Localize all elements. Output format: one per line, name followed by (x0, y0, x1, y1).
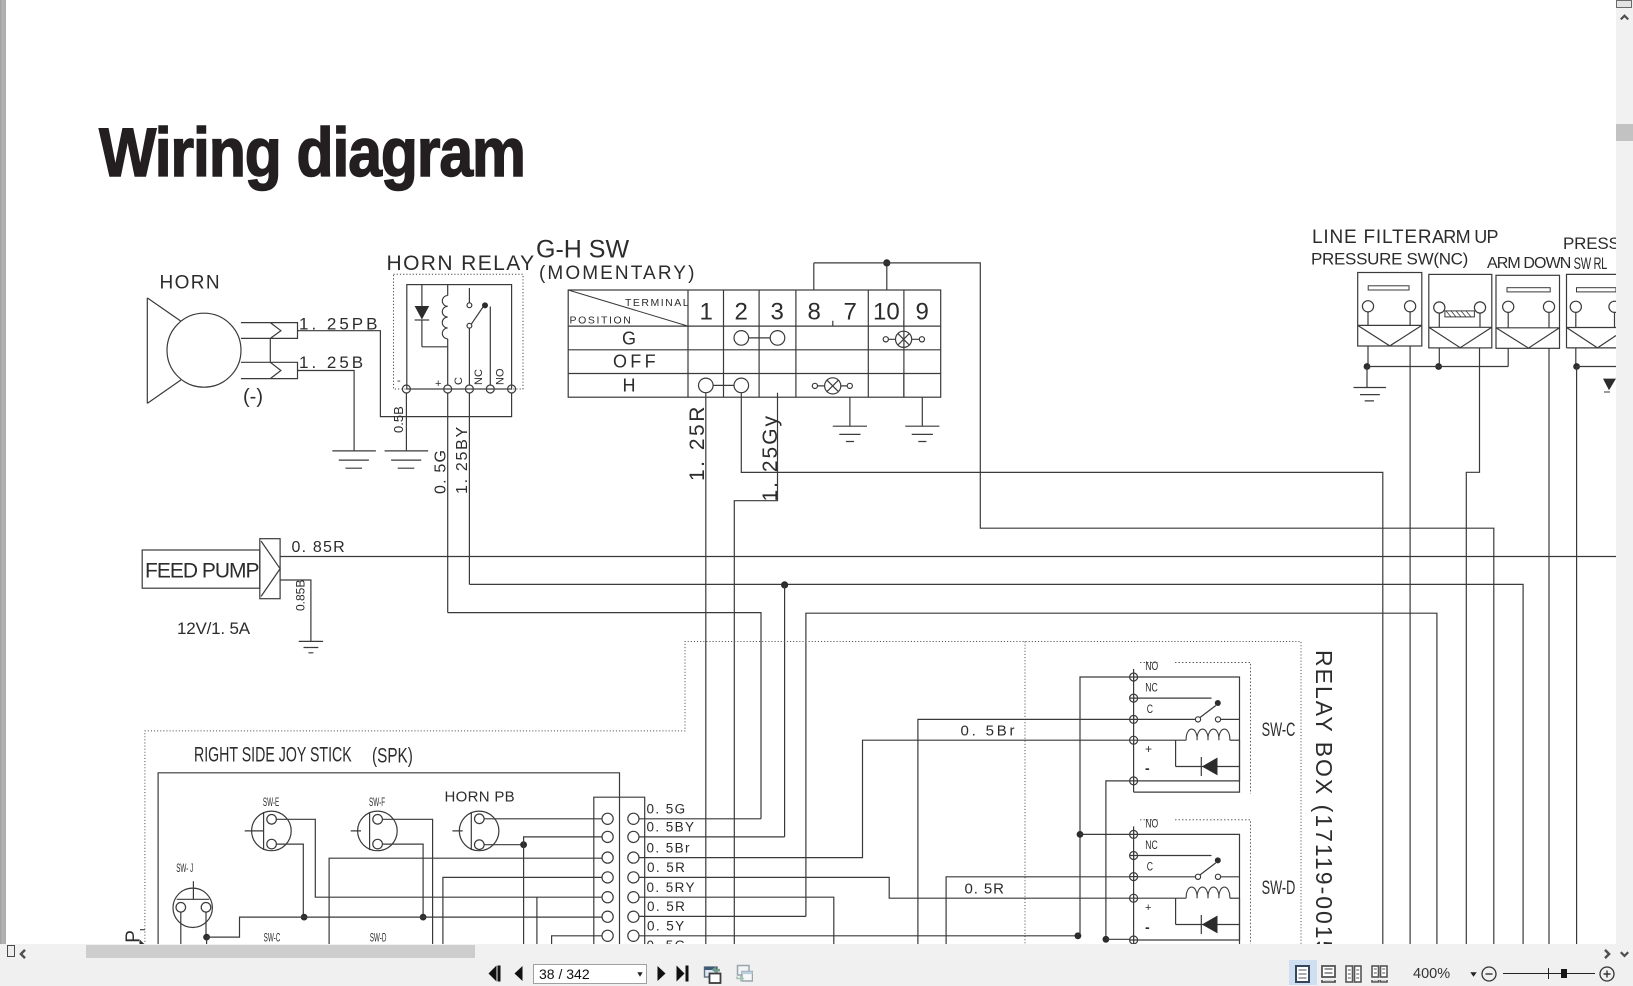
wire arm up right leg jog down (1466, 348, 1479, 945)
svg-text:SW-C: SW-C (264, 932, 281, 944)
svg-text:SW-E: SW-E (263, 796, 279, 808)
pin NO (508, 385, 516, 393)
nav: prev page (514, 966, 523, 981)
label 0.5Br (961, 723, 1018, 740)
svg-text:POSITION: POSITION (570, 315, 633, 327)
svg-text:-: - (1145, 760, 1150, 776)
ground G4 (905, 426, 939, 441)
sw rl label (1574, 255, 1608, 274)
label 0.5G rotated (433, 449, 450, 494)
svg-text:8: 8 (808, 299, 821, 326)
svg-text:NO: NO (1145, 818, 1158, 830)
wire SW-F top down (382, 819, 432, 945)
label 0.5B rotated (391, 406, 406, 433)
label 0.85R (292, 539, 346, 556)
relay pin labels (397, 368, 507, 390)
svg-text:+: + (1145, 742, 1152, 756)
svg-text:SW-F: SW-F (369, 796, 385, 808)
node H (520, 841, 527, 848)
wire 0.85B to ground (280, 580, 311, 641)
SW-D pin minus (1130, 936, 1138, 944)
G-H SW label (536, 236, 629, 264)
pin NC (486, 385, 494, 393)
wire line filter right leg down (1409, 346, 1411, 945)
zoom caret (1470, 972, 1477, 977)
ground G5 (299, 641, 323, 652)
wire SW-D minus left (1106, 938, 1130, 940)
harness dashed boundary (145, 642, 1301, 946)
layout: facing (1345, 965, 1362, 983)
wire 1.25PB horn to relay NO (298, 331, 512, 417)
wire above table col8 (813, 263, 815, 290)
svg-text:RELAY BOX (17119-0015: RELAY BOX (17119-0015 (1311, 650, 1337, 945)
relay box dashed divider (1024, 642, 1026, 946)
wire 0.5Br SW-C C left (918, 719, 1130, 945)
horn H1 label (160, 273, 222, 294)
SW-C pin minus (1130, 777, 1138, 785)
layout: book view (1371, 965, 1388, 983)
H row bridge 1-2 (699, 378, 749, 393)
wire row3 right run up to SW-C coil (639, 740, 1130, 857)
svg-text:1. 25B: 1. 25B (299, 353, 366, 372)
wire arm down left leg (1507, 348, 1509, 366)
switch SW-E (245, 811, 291, 851)
node E (1573, 363, 1580, 370)
node D (1435, 363, 1442, 370)
vertical scrollbar (1616, 0, 1633, 959)
v-scrollbar thumb (1616, 124, 1633, 141)
horn H1 symbol (147, 298, 241, 404)
svg-text:10: 10 (873, 299, 900, 326)
diode D1 (415, 285, 430, 347)
relay SW-C coil (1138, 729, 1240, 781)
svg-text:+: + (1145, 902, 1151, 914)
pin C (465, 385, 473, 393)
node I (203, 934, 210, 941)
ground G3 (833, 426, 867, 441)
label (-) (243, 386, 263, 408)
wire SW-E bottom to common (276, 844, 303, 917)
svg-text:NC: NC (473, 369, 485, 385)
v-scrollbar top split box (1616, 0, 1632, 8)
wire col9 lamp to ground (921, 397, 923, 426)
arm down label (1487, 255, 1571, 272)
wire horn pb top to row1 (484, 818, 601, 820)
wire common riser (207, 917, 602, 937)
horn relay inner box (407, 285, 512, 389)
relay SW-D coil (1138, 887, 1240, 940)
SW-D pin C (1130, 873, 1138, 881)
wire sw rl bus right (1577, 366, 1616, 368)
pin plus (444, 385, 452, 393)
horn terminal bottom (241, 362, 299, 378)
grip label rotated (cut) (123, 927, 144, 951)
wire row6 to mid bus riser (639, 915, 806, 917)
node F (301, 914, 308, 921)
svg-text:SW-D: SW-D (370, 932, 387, 944)
SW-C pin plus (1130, 736, 1138, 744)
svg-text:ARM UP: ARM UP (1432, 227, 1498, 247)
nav forward (disabled) (734, 963, 753, 984)
node B on 1.25BY run (781, 581, 788, 588)
svg-text:NC: NC (1145, 840, 1157, 852)
h-scrollbar left arrow (18, 949, 28, 959)
row labels (613, 329, 659, 396)
page combo box (533, 964, 647, 984)
switch SW-D label (below cut) (370, 932, 387, 944)
horn relay K1 label (387, 252, 536, 275)
coil bottom connect (422, 347, 448, 385)
relay SW-C dotted enclosure (1140, 662, 1251, 793)
svg-text:ARM DOWN: ARM DOWN (1487, 255, 1571, 272)
wire top bus to right drop (814, 263, 1494, 945)
wire SW-D NO left (1080, 833, 1130, 835)
switch SW-J label (176, 862, 193, 874)
wire SW-D branch to row5b (536, 897, 538, 945)
G row bridge 2-3 (734, 331, 785, 346)
wire SW-J right leg down (206, 937, 208, 945)
press label (1563, 234, 1620, 253)
nav back (enabled) (703, 963, 722, 984)
svg-text:0. 5G: 0. 5G (647, 802, 687, 817)
switch SW-J (173, 881, 212, 927)
zoom in (1599, 966, 1615, 982)
wire row1 to 0.5G riser (639, 818, 761, 820)
horn relay dashed box (394, 274, 524, 389)
wire SW-J right to common (205, 912, 207, 937)
h-scrollbar thumb (86, 945, 475, 958)
label 1.25BY rotated (454, 425, 471, 494)
wire SW-C branch2 to row4 (443, 877, 602, 945)
horn pushbutton label (445, 789, 515, 806)
v-scrollbar up arrow (1620, 13, 1629, 22)
node K (1075, 932, 1082, 939)
wire sw rl left leg (1575, 348, 1577, 367)
wire SW-C NO to SW-D NO riser (1080, 677, 1130, 936)
G row lamp 10-9 (883, 331, 924, 347)
label 0.5R (965, 881, 1005, 898)
arm up pressure switch S3 (1429, 274, 1492, 348)
label 1.25R rotated (686, 404, 709, 481)
switch SW-F (351, 811, 398, 851)
wire 1.25B label (299, 353, 366, 372)
wire row5 right short drop (639, 897, 834, 945)
junction bus to grounds (1367, 366, 1508, 368)
svg-text:HORN RELAY: HORN RELAY (387, 252, 536, 275)
svg-text:0. 5BY: 0. 5BY (647, 820, 696, 835)
ground G1 (332, 451, 376, 468)
relay terminal circles (402, 385, 515, 393)
svg-text:0. 5RY: 0. 5RY (647, 880, 696, 895)
svg-text:1. 25Gy: 1. 25Gy (759, 414, 782, 502)
svg-text:SW RL: SW RL (1574, 255, 1608, 274)
svg-text:0.5B: 0.5B (391, 406, 406, 433)
page edge arrow (140, 930, 145, 945)
svg-text:G-H SW: G-H SW (536, 236, 629, 264)
zoom level text (1413, 966, 1450, 982)
svg-text:0.85B: 0.85B (294, 580, 308, 611)
svg-text:TERMINAL: TERMINAL (625, 297, 690, 309)
connector J1 pins left column (602, 813, 613, 941)
wire SW-C minus down (1106, 781, 1130, 939)
svg-text:SW- J: SW- J (176, 862, 193, 874)
svg-text:C: C (1147, 861, 1153, 873)
arm up label (1432, 227, 1498, 247)
relay SW-C pin labels (1145, 661, 1158, 776)
wire 1.25BY run right (469, 584, 1523, 945)
switch SW-F label (369, 796, 385, 808)
nav: first page (488, 965, 501, 982)
spk label (372, 743, 413, 767)
wire sw rl left leg down (1576, 367, 1578, 946)
ground G2 (385, 451, 429, 468)
wire 0.5B relay minus to ground (405, 393, 407, 451)
relay SW-D pins (1130, 830, 1138, 944)
zoom slider track (1503, 973, 1595, 975)
wire row2 to node B drop (639, 836, 785, 838)
svg-text:(MOMENTARY): (MOMENTARY) (539, 263, 697, 284)
nav: last page (676, 965, 689, 982)
wire col7 lamp to ground (849, 397, 851, 426)
pressure sw label (1311, 250, 1468, 269)
svg-text:SW-C: SW-C (1262, 720, 1296, 741)
wire 1.25R col1 down (705, 393, 707, 945)
joystick solid box (158, 773, 619, 945)
svg-text:1: 1 (700, 299, 713, 326)
connector J1 shells (594, 797, 645, 945)
svg-text:0. 5Br: 0. 5Br (961, 723, 1018, 740)
zoom slider tick (1548, 968, 1550, 979)
svg-text:G: G (622, 329, 636, 349)
svg-text:7: 7 (844, 299, 857, 326)
svg-text:1. 25R: 1. 25R (686, 404, 709, 481)
wire 1.25Gy col3 down jog (734, 393, 777, 945)
svg-text:0. 5Br: 0. 5Br (647, 840, 691, 855)
label 0.85B rotated (294, 580, 308, 611)
wire node C to ground (1366, 367, 1368, 388)
svg-text:NO: NO (495, 368, 507, 385)
svg-text:HORN: HORN (160, 273, 222, 294)
svg-text:H: H (623, 376, 636, 396)
wire SW-E top to row5 (276, 819, 601, 897)
h-scrollbar right arrow (1602, 949, 1612, 959)
wire row7 left leg (552, 936, 602, 945)
switch SW-E label (263, 796, 279, 808)
sidebar toggle button (7, 945, 15, 957)
svg-text:12V/1. 5A: 12V/1. 5A (177, 619, 251, 638)
wire SW-J left down (180, 912, 182, 945)
svg-text:HORN PB: HORN PB (445, 789, 515, 806)
SW-C pin NC (1130, 694, 1138, 702)
feed pump connector (260, 539, 280, 599)
toolbar (0, 959, 1633, 986)
feed pump M1 box (142, 550, 260, 588)
horn pushbutton S6 (452, 811, 499, 851)
relay SW-C label (1262, 720, 1296, 741)
wire 1.25B horn to ground (298, 371, 355, 451)
relay SW-D pin strip (1133, 826, 1135, 945)
node L (1103, 936, 1110, 943)
line filter F1 (1358, 273, 1422, 347)
node C (1364, 363, 1371, 370)
svg-text:Wiring diagram: Wiring diagram (99, 114, 525, 191)
arm down switch S4 (1496, 275, 1560, 348)
svg-text:C: C (453, 377, 465, 385)
relay box label rotated (1311, 650, 1337, 955)
svg-text:0. 5R: 0. 5R (647, 899, 686, 914)
wire node H down (523, 845, 525, 945)
svg-text:FEED PUMP: FEED PUMP (145, 560, 259, 583)
wire line filter left leg (1367, 346, 1369, 367)
wire SW-F bottom to common (382, 844, 423, 917)
table header diagonal (568, 290, 688, 326)
H row lamp 8-7 (812, 378, 852, 394)
junction node A (883, 259, 890, 266)
svg-text:0. 5G: 0. 5G (433, 449, 450, 494)
svg-text:-: - (1145, 919, 1150, 935)
svg-text:SW-D: SW-D (1262, 878, 1296, 899)
svg-text:(SPK): (SPK) (372, 743, 413, 767)
switch table S2 frame (568, 290, 941, 397)
svg-text:(-): (-) (243, 386, 263, 408)
relay SW-D contacts (1138, 856, 1240, 880)
wire 0.5G run right (448, 613, 761, 819)
SW-D pin NO (1130, 830, 1138, 838)
svg-text:+: + (435, 378, 441, 390)
svg-text:NC: NC (1145, 682, 1157, 694)
svg-text:0. 5R: 0. 5R (965, 881, 1005, 898)
wire node B drop to connector row2 (784, 585, 786, 837)
pressure sw rl S5 (cut) (1567, 274, 1621, 348)
(MOMENTARY) label (539, 263, 697, 284)
wire 0.5G relay plus down (447, 393, 449, 613)
relay coil L1 (442, 285, 447, 347)
relay SW-D label (1262, 878, 1296, 899)
connector J1 pins right column (628, 813, 639, 941)
svg-text:LINE FILTER: LINE FILTER (1312, 227, 1432, 248)
wire 0.85R feed pump bus (280, 556, 1616, 558)
zoom out (1481, 966, 1497, 982)
left gray strip (0, 0, 6, 944)
wire 0.5R SW-D C left (946, 877, 1130, 945)
ground G6 (1354, 388, 1387, 401)
relay SW-D dotted enclosure (1140, 820, 1251, 945)
svg-text:0. 5R: 0. 5R (647, 860, 686, 875)
wire mid bus row6 riser (806, 613, 1437, 945)
wire arm down right leg down (1548, 348, 1550, 945)
wire 1.25PB label (299, 315, 381, 334)
svg-text:PRESSURE SW(NC): PRESSURE SW(NC) (1311, 250, 1468, 269)
wire label 0.5G row1 (647, 802, 696, 953)
terminal numbers (700, 299, 929, 326)
node G (420, 914, 427, 921)
wire above table col10 (886, 263, 888, 290)
relay SW-C contacts (1138, 698, 1240, 722)
SW-C pin NO (1130, 673, 1138, 681)
horizontal scrollbar track (0, 944, 1616, 959)
SW-C pin C (1130, 715, 1138, 723)
relay SW-C pin strip (1133, 669, 1135, 792)
pin minus (402, 385, 410, 393)
layout: continuous (1321, 965, 1336, 983)
wire arm up left leg (1438, 348, 1440, 367)
svg-text:C: C (1147, 704, 1153, 716)
wire row7 long run (639, 935, 1078, 937)
svg-text:OFF: OFF (613, 352, 659, 372)
SW-D pin plus (1130, 894, 1138, 902)
label 1.25Gy rotated (759, 414, 782, 502)
svg-text:-: - (397, 375, 401, 387)
header texts (570, 297, 691, 327)
line filter F1 label (1312, 227, 1432, 248)
wire row4 right run to SW-D coil (639, 877, 1130, 898)
feed pump rating label (177, 619, 251, 638)
v-scrollbar down arrow (1620, 950, 1629, 959)
joystick label (194, 743, 352, 766)
zoom slider thumb (1561, 969, 1567, 978)
diode D2 (cut) (1603, 379, 1616, 391)
horn terminal top (241, 323, 299, 339)
svg-text:3: 3 (771, 299, 784, 326)
nav: next page (657, 966, 666, 981)
svg-text:2: 2 (735, 299, 748, 326)
SW-D pin NC (1130, 852, 1138, 860)
wire col2 down then right (741, 393, 1383, 945)
feed pump label (145, 560, 259, 583)
wire node H to row2 (524, 837, 602, 845)
svg-text:RIGHT SIDE JOY STICK: RIGHT SIDE JOY STICK (194, 743, 352, 766)
wire 1.25BY relay C down (468, 393, 470, 584)
page title (99, 114, 525, 191)
relay SW-D pin labels (1145, 818, 1158, 935)
layout: single page (active) (1289, 960, 1317, 985)
connector body vertical (269, 338, 271, 362)
svg-text:PRESS: PRESS (1563, 234, 1616, 253)
relay SW-C pins (1130, 673, 1138, 785)
svg-text:0. 5Y: 0. 5Y (647, 919, 686, 934)
relay SW-D outline (1138, 834, 1240, 945)
relay switch S1 (467, 288, 490, 385)
svg-text:0. 85R: 0. 85R (292, 539, 346, 556)
wire SW-C branch to row3 (329, 858, 601, 945)
switch SW-C label (below cut) (264, 932, 281, 944)
node J (1077, 831, 1084, 838)
svg-text:9: 9 (916, 299, 929, 326)
svg-text:1. 25BY: 1. 25BY (454, 425, 471, 494)
wire horn pb bottom to node H (484, 844, 523, 846)
relay SW-C outline (1134, 677, 1240, 792)
